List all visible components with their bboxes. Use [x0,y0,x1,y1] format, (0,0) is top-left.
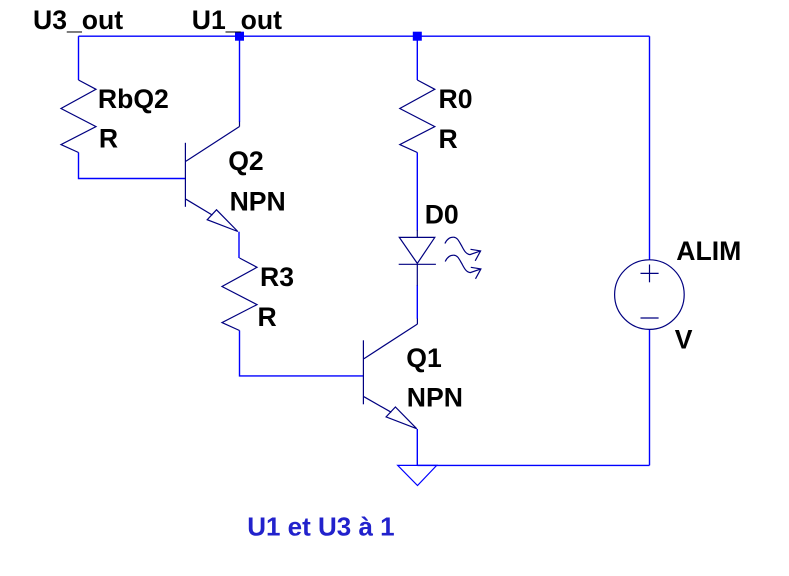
wire bottom rail ground to ALIM [418,464,650,466]
wire ALIM top vertical [649,36,651,260]
svg-text:NPN: NPN [407,383,463,413]
svg-text:U1_out: U1_out [192,5,282,35]
wire Q1 emitter to ground [416,429,418,466]
wire R0 to D0 anode [416,153,418,231]
D0 light arrow 1 [445,237,481,261]
wire D0 cathode to Q1 collector [416,285,418,319]
svg-text:NPN: NPN [230,186,286,216]
wire R3 bottom to Q1 base [240,331,364,376]
resistor R0 [400,80,435,153]
transistor Q2 [185,122,239,232]
svg-text:U3_out: U3_out [33,5,123,35]
svg-text:R: R [439,124,458,154]
svg-text:Q1: Q1 [406,343,442,373]
wire junction to R0 [416,36,418,80]
svg-text:RbQ2: RbQ2 [98,84,169,114]
wire RbQ2 bottom to Q2 base [79,153,186,179]
resistor R3 [222,258,257,331]
svg-text:U1 et U3 à 1: U1 et U3 à 1 [247,512,394,542]
D0 light arrow 2 [445,255,481,279]
svg-text:Q2: Q2 [228,146,263,176]
wire Q2 emitter to R3 [238,232,240,258]
wire U1_out junction down to Q2 collector [239,36,241,122]
svg-text:V: V [675,325,693,355]
transistor Q1 [363,319,417,429]
voltage source ALIM [615,260,685,330]
svg-text:R: R [99,124,118,154]
svg-text:D0: D0 [425,200,459,230]
wire top rail U1_out net [79,35,650,37]
svg-text:R3: R3 [260,262,294,292]
node U1_out junction square [235,32,244,41]
wire left vertical from rail to RbQ2 [78,36,80,80]
svg-text:ALIM: ALIM [676,236,741,266]
diode D0 (LED) [399,230,436,286]
node junction square at R0 branch [413,32,422,41]
resistor RbQ2 [61,80,96,153]
wire ALIM bottom vertical [649,329,651,465]
svg-text:R: R [258,302,277,332]
svg-text:R0: R0 [439,84,473,114]
ground [398,465,437,485]
